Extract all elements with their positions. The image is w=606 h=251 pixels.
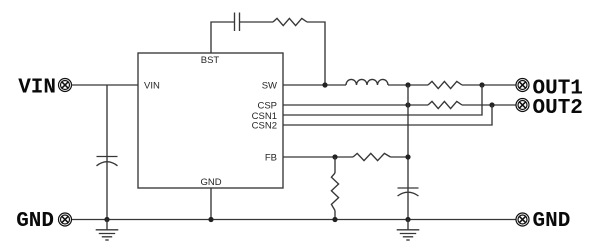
node BST/SW junction	[322, 82, 327, 87]
terminal GND (right)	[516, 213, 529, 226]
resistor R1	[273, 18, 307, 25]
terminal OUT2	[516, 99, 529, 112]
node SW2 (inductor output)	[405, 82, 410, 87]
svg-text:VIN: VIN	[18, 76, 56, 99]
node R5/rail	[332, 217, 337, 222]
wire C3 to rail	[407, 188, 409, 220]
wire R2 to OUT1 node	[462, 84, 516, 86]
capacitor C3	[398, 188, 419, 196]
resistor R2	[428, 81, 462, 88]
svg-text:GND: GND	[16, 210, 54, 233]
resistor R3	[428, 101, 462, 108]
node C1/rail	[104, 217, 109, 222]
wire CSN1 sense line	[283, 85, 482, 115]
wire ground rail	[72, 219, 517, 221]
svg-text:FB: FB	[265, 153, 277, 164]
wire input cap branch down	[106, 85, 108, 157]
node CSP junction	[405, 102, 410, 107]
inductor L1	[346, 79, 388, 85]
svg-text:OUT2: OUT2	[533, 97, 583, 120]
wire CSP pin to node SW2	[283, 104, 428, 106]
wire C2 to R1	[240, 21, 274, 23]
ground (left)	[96, 220, 119, 241]
capacitor C2	[235, 13, 240, 32]
wire C1 to ground rail	[106, 157, 108, 220]
wire R5 to rail	[334, 211, 336, 220]
terminal OUT1	[516, 79, 529, 92]
resistor R4	[353, 153, 391, 160]
ground (right)	[397, 220, 420, 241]
resistor R5	[331, 173, 338, 211]
wire FB node to R5	[334, 157, 336, 173]
wire FB pin to divider	[283, 156, 353, 158]
terminal GND (left)	[59, 213, 72, 226]
wire VIN terminal to U1	[72, 84, 139, 86]
svg-text:SW: SW	[262, 81, 277, 92]
wire node SW2 down to C3	[407, 85, 409, 188]
wire R3 to OUT2 node	[462, 104, 516, 106]
IC U1	[138, 53, 283, 188]
node OUT2 sense	[489, 102, 494, 107]
svg-text:GND: GND	[200, 177, 221, 188]
node FB/SW2 junction	[405, 154, 410, 159]
svg-text:CSN2: CSN2	[252, 121, 277, 132]
svg-text:GND: GND	[533, 210, 571, 233]
svg-text:VIN: VIN	[144, 81, 160, 92]
wire U1 GND pin to rail	[210, 188, 212, 220]
wire R1 down to SW node	[307, 22, 325, 85]
node C3/rail	[405, 217, 410, 222]
wire R4 to node	[391, 156, 409, 158]
terminal VIN	[59, 79, 72, 92]
wire SW pin to inductor	[283, 84, 346, 86]
svg-text:BST: BST	[201, 55, 220, 66]
capacitor C1	[97, 157, 118, 166]
node FB junction	[332, 154, 337, 159]
node GND pin/rail	[208, 217, 213, 222]
node OUT1 sense	[479, 82, 484, 87]
wire CSN2 sense line	[283, 105, 492, 125]
wire L1 to node SW2	[388, 84, 428, 86]
wire BST riser	[211, 22, 235, 53]
